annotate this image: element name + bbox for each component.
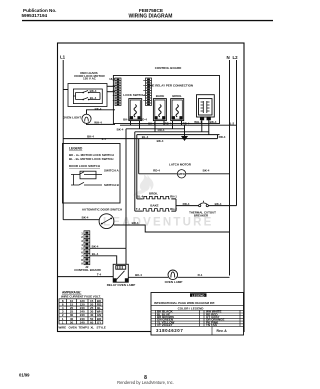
svg-text:3-4: 3-4 <box>102 137 107 141</box>
svg-text:BK-4: BK-4 <box>123 118 130 122</box>
svg-text:WH-4: WH-4 <box>94 121 102 125</box>
svg-text:BREAKER: BREAKER <box>194 213 209 217</box>
svg-text:BK-4: BK-4 <box>148 122 155 126</box>
svg-text:120 V AC: 120 V AC <box>83 77 97 81</box>
svg-text:RD-4: RD-4 <box>183 122 190 126</box>
svg-text:LEGEND: LEGEND <box>69 147 83 151</box>
svg-text:MTR: MTR <box>178 172 185 176</box>
svg-text:BL-4: BL-4 <box>137 195 144 199</box>
svg-text:RH-2: RH-2 <box>170 207 177 211</box>
svg-text:BR-4: BR-4 <box>132 221 139 225</box>
svg-text:BAKE: BAKE <box>156 94 165 98</box>
svg-text:BL-4: BL-4 <box>142 135 149 139</box>
svg-text:RELAY OVEN LAMP: RELAY OVEN LAMP <box>107 283 136 287</box>
svg-text:WH-4: WH-4 <box>194 120 202 124</box>
svg-text:Rendered by LeadVenture, Inc.: Rendered by LeadVenture, Inc. <box>117 380 174 385</box>
svg-text:RD-4: RD-4 <box>165 122 172 126</box>
svg-text:INTERNATIONAL PAGE WIRE DIAGRA: INTERNATIONAL PAGE WIRE DIAGRAM INT. <box>154 301 215 305</box>
svg-text:CONTROL BOARD: CONTROL BOARD <box>155 66 182 70</box>
svg-text:BK-4: BK-4 <box>87 134 94 138</box>
svg-text:L1: L1 <box>60 55 66 60</box>
svg-text:BL - B+ MOTOR LOCK SWITCH: BL - B+ MOTOR LOCK SWITCH <box>69 157 113 161</box>
svg-text:BK-4: BK-4 <box>203 169 210 173</box>
svg-text:318046207: 318046207 <box>156 328 183 333</box>
svg-text:WIRE CURRENT FUSE VOLT.: WIRE CURRENT FUSE VOLT. <box>61 294 101 298</box>
svg-text:BL-4: BL-4 <box>92 252 99 256</box>
svg-text:OVEN LAMP: OVEN LAMP <box>165 280 183 284</box>
svg-text:RD-4: RD-4 <box>140 118 147 122</box>
svg-text:WIRE: WIRE <box>59 326 67 330</box>
svg-text:TEMP'S: TEMP'S <box>79 326 90 330</box>
svg-text:BK-4: BK-4 <box>215 202 222 206</box>
svg-text:BL-4: BL-4 <box>90 96 97 100</box>
svg-text:BAKE: BAKE <box>150 204 158 208</box>
svg-text:RD-4: RD-4 <box>183 202 190 206</box>
svg-text:L-2: L-2 <box>230 121 235 125</box>
svg-text:LEGEND: LEGEND <box>192 293 205 297</box>
svg-text:BK-4: BK-4 <box>95 107 102 111</box>
svg-text:LOCK SWITCH: LOCK SWITCH <box>123 93 144 97</box>
svg-text:BK-4: BK-4 <box>90 89 97 93</box>
svg-text:RD-4: RD-4 <box>153 169 160 173</box>
svg-text:50: 50 <box>70 320 74 324</box>
svg-text:18-4: 18-4 <box>109 77 115 81</box>
svg-text:TN TAN: TN TAN <box>206 323 217 327</box>
svg-text:BK-4: BK-4 <box>210 120 217 124</box>
svg-text:R-1: R-1 <box>198 273 203 277</box>
svg-text:AUTOMATIC DOOR SWITCH: AUTOMATIC DOOR SWITCH <box>82 208 122 212</box>
svg-text:OVEN LIGHT: OVEN LIGHT <box>63 115 82 119</box>
svg-text:LATCH MOTOR: LATCH MOTOR <box>169 162 192 166</box>
svg-text:RH-1: RH-1 <box>170 195 177 199</box>
svg-text:CONTROL BOARD: CONTROL BOARD <box>74 268 101 272</box>
svg-text:BROIL: BROIL <box>172 94 182 98</box>
svg-text:SWITCH B: SWITCH B <box>104 183 120 187</box>
svg-text:L2: L2 <box>233 55 239 60</box>
svg-text:ONE RELAY PER CONNECTION: ONE RELAY PER CONNECTION <box>148 83 193 87</box>
svg-text:01/99: 01/99 <box>19 373 30 378</box>
svg-text:60: 60 <box>90 320 94 324</box>
svg-text:STYLE: STYLE <box>97 326 106 330</box>
svg-text:DOOR LOCK SWITCH: DOOR LOCK SWITCH <box>69 164 100 168</box>
svg-text:RD-4: RD-4 <box>158 128 165 132</box>
svg-text:BK-4: BK-4 <box>157 139 164 143</box>
svg-text:T-4: T-4 <box>97 273 102 277</box>
svg-text:VT VIOLET: VT VIOLET <box>157 323 173 327</box>
svg-text:240: 240 <box>80 320 85 324</box>
svg-text:XL: XL <box>91 326 95 330</box>
svg-text:RD-4: RD-4 <box>219 135 226 139</box>
svg-text:BK-4: BK-4 <box>135 273 142 277</box>
svg-text:9: 9 <box>81 262 83 266</box>
svg-text:COLOR / LEGEND: COLOR / LEGEND <box>178 307 205 311</box>
svg-text:BROIL: BROIL <box>149 191 158 195</box>
svg-text:SWITCH A: SWITCH A <box>104 169 120 173</box>
svg-text:BK-4: BK-4 <box>92 244 99 248</box>
svg-text:N: N <box>227 55 230 60</box>
svg-text:T-4: T-4 <box>136 207 141 211</box>
svg-text:Rev. A: Rev. A <box>217 329 228 333</box>
svg-text:GY: GY <box>97 320 101 324</box>
svg-text:BK-4: BK-4 <box>117 127 124 131</box>
svg-text:WIRING DIAGRAM: WIRING DIAGRAM <box>129 14 173 20</box>
svg-text:LEADVENTURE: LEADVENTURE <box>103 217 213 229</box>
svg-text:OVEN: OVEN <box>69 326 77 330</box>
svg-text:BK-4: BK-4 <box>82 216 89 220</box>
svg-text:5995317194: 5995317194 <box>22 13 48 18</box>
